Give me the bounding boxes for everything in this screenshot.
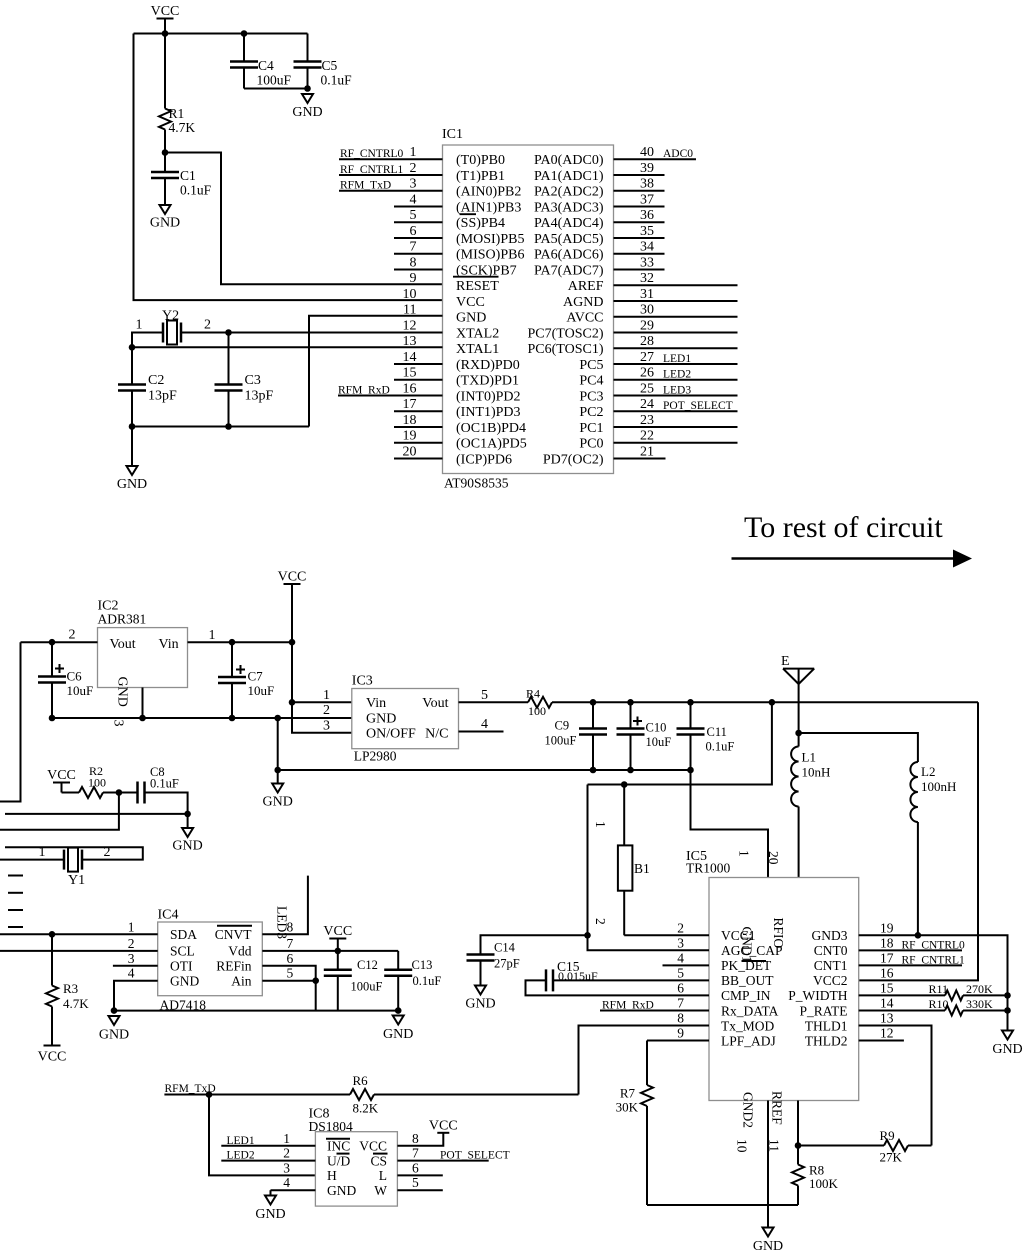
ground below C8 bbox=[172, 814, 202, 854]
IC8 pin 4 wire bbox=[271, 1190, 316, 1195]
svg-text:35: 35 bbox=[640, 224, 654, 239]
node junction C10 top bbox=[627, 699, 634, 706]
svg-text:24: 24 bbox=[640, 397, 654, 412]
IC1 pin 5 wire bbox=[394, 221, 443, 223]
svg-text:(INT0)PD2: (INT0)PD2 bbox=[456, 389, 521, 404]
IC1 pin 33 wire bbox=[614, 268, 665, 270]
IC1 pin 27 number and label PC5 bbox=[579, 350, 654, 373]
svg-text:17: 17 bbox=[880, 950, 894, 965]
svg-text:25: 25 bbox=[640, 381, 654, 396]
svg-text:GND3: GND3 bbox=[812, 928, 848, 943]
IC1 pin 7 wire bbox=[394, 253, 443, 255]
IC1 pin 8 number and label (SCK)PB7 bbox=[410, 255, 517, 278]
svg-text:2: 2 bbox=[128, 936, 135, 951]
svg-text:E: E bbox=[781, 654, 790, 669]
svg-text:AGC_CAP: AGC_CAP bbox=[721, 943, 783, 958]
svg-text:3: 3 bbox=[677, 935, 684, 950]
node junction antenna/L1/L2 bbox=[795, 730, 802, 737]
capacitor C2 13pF bbox=[118, 373, 177, 427]
svg-text:Y2: Y2 bbox=[162, 309, 179, 324]
node junction R10/GND bbox=[1004, 1007, 1011, 1014]
svg-text:4.7K: 4.7K bbox=[63, 996, 89, 1011]
svg-text:2: 2 bbox=[204, 318, 211, 333]
IC1 pin 35 wire bbox=[614, 237, 665, 239]
svg-text:1: 1 bbox=[410, 145, 417, 160]
svg-text:22: 22 bbox=[640, 429, 654, 444]
IC8 pin 8 wire and VCC bbox=[397, 1118, 457, 1146]
svg-text:C7: C7 bbox=[248, 669, 264, 684]
IC1 pin 38 wire bbox=[614, 190, 665, 192]
wire C8 to GND node bbox=[145, 793, 188, 814]
svg-text:VCC: VCC bbox=[38, 1050, 67, 1065]
svg-text:ADC0: ADC0 bbox=[663, 148, 693, 160]
svg-text:100: 100 bbox=[528, 704, 546, 718]
wire left stub y=814 bbox=[5, 813, 188, 815]
IC5 pin 12 number and label THLD2 bbox=[805, 1026, 894, 1049]
IC4 label CNVT with overline bbox=[215, 926, 253, 942]
svg-text:Ain: Ain bbox=[231, 974, 252, 989]
capacitor C1 0.1uF bbox=[151, 153, 212, 206]
svg-text:CNT0: CNT0 bbox=[814, 943, 848, 958]
IC1 pin 20 wire bbox=[394, 457, 443, 459]
wire GND1 pin path bbox=[691, 770, 769, 878]
svg-text:To rest of circuit: To rest of circuit bbox=[744, 511, 943, 544]
antenna E bbox=[781, 654, 814, 733]
svg-text:POT_SELECT: POT_SELECT bbox=[440, 1150, 510, 1162]
IC5 pin 4 number and label PK_DET bbox=[677, 950, 772, 973]
IC1 pin 25 number and label PC3 bbox=[579, 381, 654, 404]
svg-text:Vout: Vout bbox=[110, 637, 136, 652]
node junction L2/GND3 bbox=[915, 932, 922, 939]
svg-text:PA1(ADC1): PA1(ADC1) bbox=[534, 169, 604, 184]
node junction R1/C1/RESET bbox=[162, 149, 169, 156]
IC1 pin 14 wire bbox=[394, 363, 443, 365]
wire analog GND rail bbox=[278, 769, 691, 771]
ground below C5 bbox=[302, 94, 313, 103]
svg-text:10nH: 10nH bbox=[802, 765, 831, 780]
svg-text:7: 7 bbox=[412, 1146, 419, 1161]
wire R2 node to left edge bbox=[0, 793, 119, 830]
svg-text:40: 40 bbox=[640, 145, 654, 160]
svg-text:13: 13 bbox=[880, 1010, 894, 1025]
svg-text:(AIN0)PB2: (AIN0)PB2 bbox=[456, 185, 521, 200]
IC1 pin 6 number and label (MOSI)PB5 bbox=[410, 224, 525, 247]
svg-text:RFM_TxD: RFM_TxD bbox=[340, 180, 391, 192]
svg-text:C9: C9 bbox=[555, 719, 570, 733]
IC3 pin 4 stub bbox=[459, 731, 504, 733]
svg-text:4: 4 bbox=[481, 717, 488, 732]
svg-text:(T0)PB0: (T0)PB0 bbox=[456, 153, 505, 168]
svg-text:LP2980: LP2980 bbox=[354, 749, 397, 764]
svg-text:(OC1B)PD4: (OC1B)PD4 bbox=[456, 421, 526, 436]
node junction B1 top bbox=[621, 781, 628, 788]
IC5 pin 18 number and label CNT0 bbox=[814, 935, 894, 958]
IC1 pin 31 wire bbox=[614, 300, 738, 302]
IC1 pin 20 number and label (ICP)PD6 bbox=[403, 444, 513, 467]
svg-text:(INT1)PD3: (INT1)PD3 bbox=[456, 405, 521, 420]
IC1 pin 24 wire bbox=[614, 410, 738, 412]
IC1 pin 28 number and label PC6(TOSC1) bbox=[528, 334, 654, 357]
arrow to rest of circuit bbox=[732, 550, 973, 568]
svg-text:3: 3 bbox=[410, 177, 417, 192]
IC1 pin 27 wire bbox=[614, 363, 738, 365]
IC1 pin 26 wire bbox=[614, 379, 738, 381]
svg-text:AGND: AGND bbox=[563, 295, 603, 310]
svg-text:330K: 330K bbox=[966, 997, 993, 1011]
IC1 pin 13 number and label XTAL1 bbox=[403, 334, 500, 357]
ground below C14 bbox=[475, 986, 486, 995]
svg-text:Vin: Vin bbox=[159, 637, 179, 652]
svg-text:2: 2 bbox=[323, 703, 330, 718]
IC5 pin 15 number and label P_WIDTH bbox=[788, 980, 894, 1003]
IC2 pin 2 wire bbox=[21, 628, 98, 643]
svg-text:C5: C5 bbox=[322, 58, 338, 73]
IC1 pin 38 number and label PA2(ADC2) bbox=[534, 177, 654, 200]
IC5 pin 5 wire bbox=[553, 979, 709, 981]
svg-text:10uF: 10uF bbox=[646, 735, 672, 749]
IC4 pin 2 wire SCL bbox=[0, 950, 158, 952]
IC1 pin 16 number and label (INT0)PD2 bbox=[403, 381, 521, 404]
IC5 pin 18 wire bbox=[859, 949, 962, 951]
svg-text:(OC1A)PD5: (OC1A)PD5 bbox=[456, 437, 527, 452]
node junction C3 bottom bbox=[225, 423, 232, 430]
IC2 pin 1 wire bbox=[188, 628, 293, 643]
svg-text:GND: GND bbox=[99, 1028, 129, 1043]
wire stub 1 bbox=[8, 875, 23, 877]
node junction rail drop bbox=[274, 715, 281, 722]
IC8 pin 7 wire bbox=[397, 1160, 488, 1162]
svg-text:REFin: REFin bbox=[216, 959, 252, 974]
svg-text:PC3: PC3 bbox=[579, 389, 603, 404]
svg-text:GND: GND bbox=[465, 997, 495, 1012]
node junction C6/Vout bbox=[49, 639, 56, 646]
capacitor C11 0.1uF bbox=[677, 702, 735, 770]
node junction Y2/C3 bbox=[225, 329, 232, 336]
node junction C11 top bbox=[687, 699, 694, 706]
IC5 pin 12 stub THLD2 bbox=[859, 1040, 904, 1042]
IC5 pin 7 wire bbox=[600, 1009, 709, 1011]
ground below GND2 bbox=[763, 1228, 774, 1237]
svg-text:0.1uF: 0.1uF bbox=[413, 974, 442, 988]
svg-text:3: 3 bbox=[128, 951, 135, 966]
resistor R9 27K bbox=[798, 1128, 932, 1165]
svg-text:LED3: LED3 bbox=[663, 384, 691, 396]
svg-text:OTI: OTI bbox=[170, 959, 193, 974]
svg-text:100K: 100K bbox=[809, 1176, 839, 1191]
svg-text:33: 33 bbox=[640, 255, 654, 270]
svg-text:PC2: PC2 bbox=[579, 405, 603, 420]
svg-text:LED3: LED3 bbox=[275, 906, 290, 939]
IC1 pin 36 wire bbox=[614, 221, 665, 223]
IC1 pin 25 wire bbox=[614, 394, 738, 396]
IC1 pin 4 wire bbox=[394, 205, 443, 207]
IC8 label U/D with overline bbox=[327, 1153, 351, 1168]
node junction IC3 pin1 bbox=[289, 699, 296, 706]
wire stub 4 bbox=[8, 926, 23, 928]
svg-text:39: 39 bbox=[640, 161, 654, 176]
IC2 GND pin wire bbox=[142, 688, 144, 719]
ground below IC4 bbox=[109, 1016, 120, 1025]
svg-text:VCC: VCC bbox=[151, 4, 180, 19]
IC1 pin 18 wire bbox=[394, 426, 443, 428]
IC5 pin 19 number and label GND3 bbox=[812, 920, 894, 943]
IC5 pin 4 stub bbox=[663, 964, 710, 966]
IC4 pin 6 wire REFin bbox=[262, 966, 315, 1011]
svg-text:VCC: VCC bbox=[429, 1118, 458, 1133]
svg-text:15: 15 bbox=[880, 980, 894, 995]
IC1 pin 2 wire bbox=[339, 174, 443, 176]
svg-text:7: 7 bbox=[677, 995, 684, 1010]
power VCC symbol (above IC2/IC3) bbox=[278, 570, 307, 643]
svg-text:AVCC: AVCC bbox=[566, 311, 603, 326]
svg-text:17: 17 bbox=[403, 397, 417, 412]
svg-text:L2: L2 bbox=[921, 764, 935, 779]
IC5 pin 19 wire GND3 bbox=[859, 935, 1008, 1030]
svg-text:1: 1 bbox=[136, 318, 143, 333]
IC1 pin 1 number and label (T0)PB0 bbox=[410, 145, 506, 168]
svg-text:8: 8 bbox=[677, 1010, 684, 1025]
wire stub 3 bbox=[8, 909, 23, 911]
IC8 pin 6 wire bbox=[397, 1174, 442, 1176]
svg-text:6: 6 bbox=[677, 980, 684, 995]
svg-text:GND: GND bbox=[292, 105, 322, 120]
node junction C2 bottom bbox=[129, 423, 136, 430]
wire C2 bottom stub bbox=[131, 427, 133, 467]
wire Y2 pin 1 to C2 bbox=[132, 333, 163, 384]
svg-text:30: 30 bbox=[640, 303, 654, 318]
svg-text:PC0: PC0 bbox=[579, 437, 603, 452]
node junction R11/GND bbox=[1004, 992, 1011, 999]
svg-text:CNVT: CNVT bbox=[215, 927, 253, 942]
svg-text:270K: 270K bbox=[966, 982, 993, 996]
svg-text:P_RATE: P_RATE bbox=[799, 1003, 847, 1018]
node junction Vdd/C12 bbox=[335, 948, 342, 955]
wire RFM_TxD branch to IC8 pin 3 bbox=[209, 1095, 315, 1176]
ground below IC2 rail bbox=[272, 784, 283, 793]
svg-text:100uF: 100uF bbox=[545, 734, 577, 748]
svg-text:27K: 27K bbox=[880, 1150, 903, 1165]
svg-text:0.1uF: 0.1uF bbox=[706, 740, 735, 754]
capacitor C14 27pF bbox=[467, 941, 520, 986]
capacitor C9 100uF bbox=[545, 702, 608, 770]
IC1 pin 39 number and label PA1(ADC1) bbox=[534, 161, 654, 184]
svg-text:LED1: LED1 bbox=[663, 353, 691, 365]
svg-text:GND: GND bbox=[172, 839, 202, 854]
IC1 pin 2 number and label (T1)PB1 bbox=[410, 161, 506, 184]
power VCC symbol inverted (R3 bottom) bbox=[38, 1046, 67, 1065]
svg-text:N/C: N/C bbox=[425, 727, 448, 742]
svg-text:R3: R3 bbox=[63, 981, 78, 996]
svg-text:SCL: SCL bbox=[170, 944, 195, 959]
svg-text:32: 32 bbox=[640, 271, 654, 286]
svg-text:27pF: 27pF bbox=[494, 957, 520, 971]
svg-text:C13: C13 bbox=[412, 958, 433, 972]
svg-text:R7: R7 bbox=[620, 1086, 636, 1101]
svg-text:PC5: PC5 bbox=[579, 358, 603, 373]
IC1 pin 1 wire bbox=[339, 158, 443, 160]
node junction VCC/Vin bbox=[289, 639, 296, 646]
IC8 pin 5 wire bbox=[397, 1189, 442, 1191]
svg-text:Y1: Y1 bbox=[68, 873, 85, 888]
wire AGC branch bbox=[587, 785, 589, 936]
svg-text:1: 1 bbox=[209, 628, 216, 643]
IC1 pin 29 number and label PC7(TOSC2) bbox=[528, 318, 654, 341]
svg-text:23: 23 bbox=[640, 413, 654, 428]
svg-text:CNT1: CNT1 bbox=[814, 958, 848, 973]
svg-text:31: 31 bbox=[640, 287, 654, 302]
node junction C9 bottom bbox=[590, 767, 597, 774]
svg-text:0.1uF: 0.1uF bbox=[321, 73, 353, 88]
svg-text:5: 5 bbox=[677, 965, 684, 980]
svg-text:34: 34 bbox=[640, 240, 654, 255]
node junction RFM_TxD/IC8 bbox=[206, 1091, 213, 1098]
resistor R1 4.7K bbox=[159, 34, 195, 153]
svg-text:VCC1: VCC1 bbox=[721, 928, 756, 943]
IC1 pin 17 number and label (INT1)PD3 bbox=[403, 397, 521, 420]
IC1 pin 19 number and label (OC1A)PD5 bbox=[403, 429, 527, 452]
svg-text:GND: GND bbox=[255, 1207, 285, 1222]
capacitor C15 0.015uF bbox=[546, 959, 598, 991]
resistor R11 270K bbox=[859, 982, 1008, 1001]
IC1 pin 15 wire bbox=[394, 379, 443, 381]
IC1 pin 40 number and label PA0(ADC0) bbox=[534, 145, 654, 168]
capacitor C12 100uF bbox=[324, 951, 383, 1011]
svg-text:GND: GND bbox=[170, 974, 199, 989]
IC1 pin 30 wire bbox=[614, 316, 738, 318]
node junction C7 bottom bbox=[229, 715, 236, 722]
wire VCC to IC1 pin 10 bbox=[134, 34, 443, 301]
svg-text:21: 21 bbox=[640, 444, 654, 459]
node junction IC2 GND bbox=[139, 715, 146, 722]
svg-text:W: W bbox=[374, 1183, 387, 1198]
svg-text:ADR381: ADR381 bbox=[98, 612, 147, 627]
svg-text:8: 8 bbox=[412, 1131, 419, 1146]
svg-text:28: 28 bbox=[640, 334, 654, 349]
capacitor C10 10uF (polarized) bbox=[617, 702, 672, 770]
svg-text:C4: C4 bbox=[258, 58, 274, 73]
svg-text:VCC: VCC bbox=[47, 768, 76, 783]
svg-text:Vdd: Vdd bbox=[228, 944, 251, 959]
voltage reference IC2 ADR381 box bbox=[98, 628, 188, 688]
IC1 pin 22 number and label PC0 bbox=[579, 429, 654, 452]
IC5 pin 8 wire bbox=[579, 1025, 710, 1094]
node junction R3/SDA bbox=[49, 931, 56, 938]
IC1 pin 37 number and label PA3(ADC3) bbox=[534, 192, 654, 215]
svg-text:9: 9 bbox=[677, 1026, 684, 1041]
svg-text:GND: GND bbox=[383, 1027, 413, 1042]
svg-text:8.2K: 8.2K bbox=[353, 1101, 379, 1116]
svg-text:100nH: 100nH bbox=[921, 779, 956, 794]
capacitor C6 10uF (polarized) bbox=[38, 642, 93, 718]
capacitor C5 0.1uF bbox=[294, 34, 353, 89]
svg-text:PA2(ADC2): PA2(ADC2) bbox=[534, 185, 604, 200]
svg-text:19: 19 bbox=[880, 920, 894, 935]
svg-text:13pF: 13pF bbox=[148, 389, 177, 404]
wire Y1 pin 2 loop bbox=[5, 847, 143, 859]
crystal Y1 bbox=[39, 845, 111, 888]
IC5 pin 13 number and label THLD1 bbox=[805, 1010, 894, 1033]
svg-text:R9: R9 bbox=[880, 1128, 895, 1143]
IC1 pin 22 wire bbox=[614, 442, 738, 444]
IC5 pin 3 number and label AGC_CAP bbox=[677, 935, 782, 958]
svg-text:VCC: VCC bbox=[323, 924, 352, 939]
IC5 pin 13 wire THLD1 bbox=[859, 1025, 932, 1145]
svg-text:12: 12 bbox=[880, 1026, 894, 1041]
capacitor C8 0.1uF bbox=[138, 765, 179, 804]
IC5 pin 9 wire bbox=[647, 1040, 709, 1042]
svg-text:ON/OFF: ON/OFF bbox=[366, 727, 416, 742]
svg-text:5: 5 bbox=[412, 1175, 419, 1190]
IC8 pin 1 wire bbox=[221, 1145, 315, 1147]
IC1 pin 5 number and label (SS)PB4 bbox=[410, 208, 506, 231]
wire C15 to CMP_IN bbox=[526, 980, 710, 995]
svg-text:0.1uF: 0.1uF bbox=[150, 777, 179, 791]
IC1 pin 23 wire bbox=[614, 426, 738, 428]
svg-text:3: 3 bbox=[323, 718, 330, 733]
svg-text:2: 2 bbox=[593, 918, 608, 925]
svg-text:20: 20 bbox=[403, 444, 417, 459]
svg-text:3: 3 bbox=[111, 720, 126, 727]
node junction REFin/Ain bbox=[312, 977, 319, 984]
svg-text:AREF: AREF bbox=[568, 279, 604, 294]
wire IC1 pin 11 GND to C2/C3 bottoms bbox=[309, 316, 443, 427]
svg-text:PC6(TOSC1): PC6(TOSC1) bbox=[528, 342, 604, 357]
svg-text:INC: INC bbox=[327, 1139, 350, 1154]
IC5 pin 11 wire RREF bbox=[797, 1101, 799, 1146]
svg-text:XTAL1: XTAL1 bbox=[456, 342, 499, 357]
wire stub 2 bbox=[8, 892, 23, 894]
power VCC symbol (IC4 Vdd) bbox=[323, 924, 352, 951]
svg-text:7: 7 bbox=[287, 936, 294, 951]
power VCC symbol (R2) bbox=[47, 768, 76, 793]
svg-text:GND2: GND2 bbox=[741, 1092, 756, 1128]
potentiometer IC8 DS1804 box bbox=[315, 1132, 397, 1206]
svg-text:PC1: PC1 bbox=[579, 421, 603, 436]
svg-text:4: 4 bbox=[128, 966, 135, 981]
svg-text:19: 19 bbox=[403, 429, 417, 444]
svg-text:16: 16 bbox=[403, 381, 417, 396]
svg-text:6: 6 bbox=[412, 1160, 419, 1175]
svg-text:R6: R6 bbox=[353, 1073, 369, 1088]
svg-text:4.7K: 4.7K bbox=[169, 120, 196, 135]
node junction VCC/C4 bbox=[241, 30, 248, 37]
svg-text:3: 3 bbox=[283, 1160, 290, 1175]
IC8 label CS with overline bbox=[370, 1153, 387, 1168]
wire to C14 bbox=[481, 935, 588, 954]
svg-text:29: 29 bbox=[640, 318, 654, 333]
IC1 pin 24 number and label PC2 bbox=[579, 397, 654, 420]
svg-text:GND: GND bbox=[263, 795, 293, 810]
svg-text:LED1: LED1 bbox=[227, 1135, 255, 1147]
IC1 pin 31 number and label AGND bbox=[563, 287, 654, 310]
svg-text:1: 1 bbox=[283, 1131, 290, 1146]
svg-text:38: 38 bbox=[640, 177, 654, 192]
svg-text:7: 7 bbox=[410, 240, 417, 255]
IC5 pin 9 number and label LPF_ADJ bbox=[677, 1026, 776, 1049]
svg-text:RF_CNTRL0: RF_CNTRL0 bbox=[340, 148, 404, 160]
svg-text:XTAL2: XTAL2 bbox=[456, 326, 499, 341]
IC5 pin 3 wire bbox=[588, 935, 710, 950]
node junction C11 bottom bbox=[687, 767, 694, 774]
svg-text:GND: GND bbox=[327, 1183, 356, 1198]
svg-text:15: 15 bbox=[403, 366, 417, 381]
svg-text:IC1: IC1 bbox=[442, 127, 463, 142]
wire Vout to left edge bbox=[0, 642, 21, 801]
svg-text:H: H bbox=[327, 1168, 337, 1183]
transceiver IC5 TR1000 box bbox=[709, 878, 859, 1101]
svg-text:PD7(OC2): PD7(OC2) bbox=[543, 452, 604, 467]
IC1 pin 33 number and label PA7(ADC7) bbox=[534, 255, 654, 278]
